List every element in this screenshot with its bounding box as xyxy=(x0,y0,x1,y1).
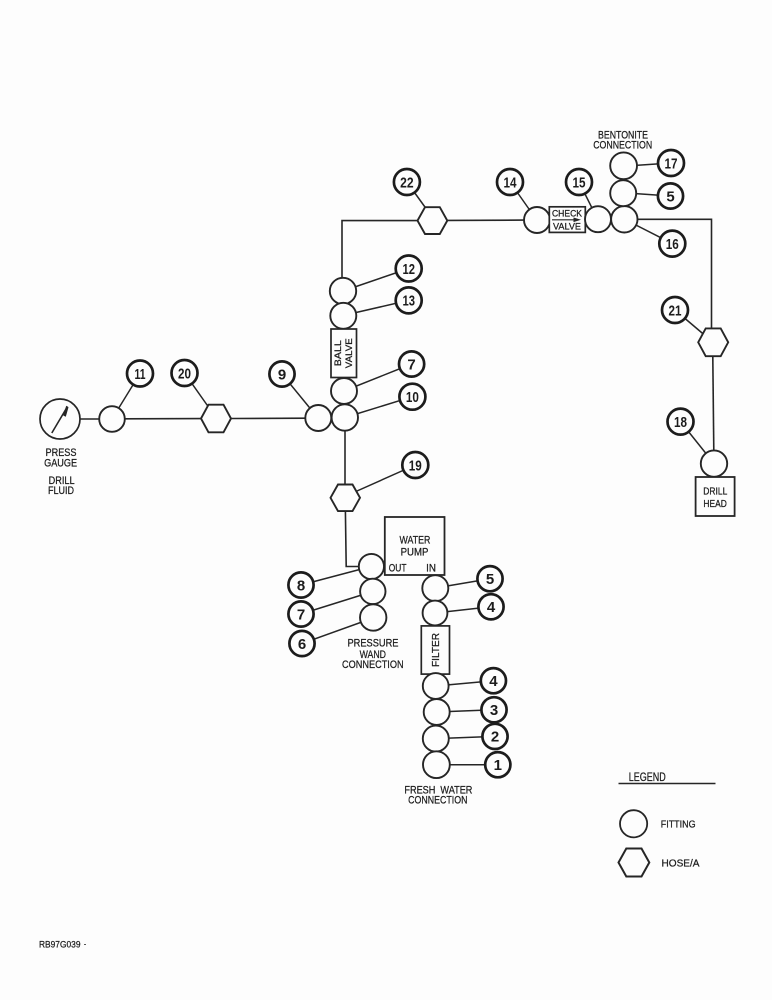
svg-text:2: 2 xyxy=(491,729,499,746)
callout 5 pump in xyxy=(477,566,502,591)
callout 19 xyxy=(402,452,428,478)
filter box xyxy=(421,626,449,674)
callout 9 xyxy=(269,361,294,386)
svg-text:10: 10 xyxy=(406,389,419,406)
leader 7 upper xyxy=(344,364,412,391)
leader 22 xyxy=(407,182,430,214)
svg-text:VALVE: VALVE xyxy=(344,338,355,368)
svg-text:CONNECTION: CONNECTION xyxy=(593,140,652,152)
svg-text:PRESSURE: PRESSURE xyxy=(348,638,399,650)
svg-text:20: 20 xyxy=(178,365,191,382)
gauge needle xyxy=(52,407,68,434)
svg-text:22: 22 xyxy=(400,174,414,191)
leader 11 xyxy=(112,374,140,420)
svg-text:3: 3 xyxy=(490,702,498,719)
fitting 1 xyxy=(423,751,450,778)
wire hose 19 to water pump OUT xyxy=(345,511,370,567)
leader 8 xyxy=(301,567,371,586)
fitting 18 xyxy=(701,450,727,476)
fitting 12 xyxy=(330,278,356,304)
leader 10 xyxy=(345,397,412,418)
leader 4 pump in xyxy=(435,607,491,613)
svg-text:13: 13 xyxy=(402,293,415,310)
fitting 16 junction xyxy=(611,206,637,232)
ball valve box xyxy=(331,329,357,378)
leader 5 pump in xyxy=(435,579,490,588)
svg-text:7: 7 xyxy=(407,356,415,373)
leader 5 bentonite xyxy=(626,193,671,196)
svg-text:OUT: OUT xyxy=(389,562,407,574)
fitting 6 pump out xyxy=(360,604,386,630)
leader 12 xyxy=(343,269,409,292)
svg-text:17: 17 xyxy=(665,155,678,172)
label water pump xyxy=(400,535,431,559)
svg-text:5: 5 xyxy=(666,188,674,205)
svg-text:14: 14 xyxy=(504,174,518,191)
svg-text:19: 19 xyxy=(409,457,422,474)
fitting 7 pump out xyxy=(360,579,385,604)
svg-text:VALVE: VALVE xyxy=(553,222,581,233)
svg-text:4: 4 xyxy=(487,599,496,616)
leader 4 below filter xyxy=(436,681,494,686)
fitting 14 xyxy=(524,207,550,233)
svg-text:CONNECTION: CONNECTION xyxy=(342,659,404,671)
svg-text:HEAD: HEAD xyxy=(703,499,726,510)
check valve arrow xyxy=(552,219,574,221)
callout 15 xyxy=(566,169,592,195)
tick after figure code xyxy=(84,944,86,946)
legend rule xyxy=(619,783,716,785)
leader 1 xyxy=(436,764,498,766)
leader 16 xyxy=(626,220,672,244)
wire riser above ball valve xyxy=(342,221,418,278)
wire fitting 16 to top-right corner xyxy=(636,219,712,328)
wire hose 20 to fitting 9 xyxy=(231,417,307,419)
legend fitting symbol xyxy=(620,810,647,837)
fitting 4 below filter xyxy=(423,673,449,699)
leader 6 xyxy=(302,618,373,644)
svg-text:HOSE/A: HOSE/A xyxy=(662,858,700,870)
fitting 11 xyxy=(99,406,125,432)
callout 4 below filter xyxy=(481,668,506,693)
svg-text:18: 18 xyxy=(674,414,687,431)
callout 4 pump in xyxy=(478,594,503,619)
label drill fluid xyxy=(48,475,75,497)
drill head box xyxy=(696,477,735,516)
callout 18 xyxy=(668,409,694,435)
wire gauge to fitting 11 xyxy=(80,418,101,420)
svg-text:CHECK: CHECK xyxy=(552,208,583,219)
svg-text:BALL: BALL xyxy=(333,340,344,366)
callout 10 xyxy=(399,384,425,410)
svg-text:RB97G039: RB97G039 xyxy=(39,940,81,951)
callout 12 xyxy=(396,256,422,282)
hose 20 xyxy=(201,405,231,433)
water pump box xyxy=(385,517,445,575)
hose 21 xyxy=(698,328,728,356)
leader 13 xyxy=(343,300,409,315)
leader 14 xyxy=(510,182,536,219)
label check valve xyxy=(552,208,583,232)
svg-text:FLUID: FLUID xyxy=(48,485,74,497)
callout 11 xyxy=(127,361,153,387)
callout 22 xyxy=(394,169,420,195)
label press gauge xyxy=(44,447,77,469)
label bentonite connection xyxy=(593,130,652,152)
callout 16 xyxy=(659,231,685,257)
fitting 3 xyxy=(424,699,450,725)
callout 20 xyxy=(172,360,198,386)
fitting 13 xyxy=(330,303,356,329)
svg-text:CONNECTION: CONNECTION xyxy=(408,794,467,806)
hose 22 xyxy=(418,207,448,234)
leader 18 xyxy=(681,422,713,461)
svg-text:11: 11 xyxy=(135,366,146,383)
svg-text:8: 8 xyxy=(297,577,305,594)
callout 6 xyxy=(289,631,314,656)
fitting 4 pump in xyxy=(423,601,448,626)
check valve box xyxy=(549,207,585,233)
callout 2 xyxy=(482,724,507,749)
svg-text:16: 16 xyxy=(666,236,679,253)
fitting 5 bentonite xyxy=(610,180,636,206)
wire hose 22 to fitting 14 xyxy=(447,219,526,221)
leader 3 xyxy=(437,710,494,712)
svg-text:DRILL: DRILL xyxy=(703,487,727,498)
legend hose symbol xyxy=(619,849,650,877)
fitting 7 upper xyxy=(331,378,357,404)
label fresh water connection xyxy=(404,784,472,806)
leader 2 xyxy=(436,736,495,738)
leader 15 xyxy=(579,182,597,218)
callout 14 xyxy=(497,169,523,195)
hose 19 xyxy=(331,485,361,512)
fitting 15 xyxy=(585,206,611,232)
fitting 17 bentonite xyxy=(610,152,637,179)
callout 8 xyxy=(288,572,313,597)
fitting 10 xyxy=(332,404,358,430)
callout 17 xyxy=(658,150,684,176)
svg-text:PUMP: PUMP xyxy=(401,547,429,559)
svg-text:7: 7 xyxy=(297,606,305,623)
svg-text:12: 12 xyxy=(402,261,415,278)
press gauge xyxy=(40,399,80,439)
svg-text:6: 6 xyxy=(298,636,306,653)
callout 3 xyxy=(481,697,506,722)
svg-text:9: 9 xyxy=(278,366,286,383)
fitting 2 xyxy=(423,726,449,752)
callout 7 lower xyxy=(288,601,313,626)
fitting 8 pump out xyxy=(359,554,384,579)
label pressure wand connection xyxy=(342,638,404,671)
svg-text:15: 15 xyxy=(573,174,586,191)
leader 20 xyxy=(185,373,213,412)
wire fitting 11 to hose 20 xyxy=(124,418,202,420)
svg-text:FITTING: FITTING xyxy=(661,819,696,831)
callout 21 xyxy=(662,297,688,323)
svg-text:FILTER: FILTER xyxy=(431,633,442,667)
svg-text:1: 1 xyxy=(494,757,502,774)
label ball valve xyxy=(333,338,355,368)
callout 1 xyxy=(485,752,510,777)
callout 5 bentonite xyxy=(658,183,683,208)
wire hose 21 to fitting 18 xyxy=(713,357,714,452)
svg-text:IN: IN xyxy=(426,563,436,575)
label drill head xyxy=(703,487,727,511)
svg-text:4: 4 xyxy=(489,673,498,690)
svg-text:5: 5 xyxy=(486,571,494,588)
leader 9 xyxy=(282,374,318,418)
fitting 9 xyxy=(305,405,331,431)
callout 7 upper xyxy=(399,351,424,376)
fitting 5 pump in xyxy=(422,575,448,601)
leader 17 xyxy=(626,163,671,166)
leader 19 xyxy=(348,465,415,495)
leader 7 lower xyxy=(301,592,373,615)
callout 13 xyxy=(396,287,422,313)
wire fitting 10 down to hose 19 xyxy=(344,430,346,485)
svg-text:GAUGE: GAUGE xyxy=(44,457,77,469)
svg-text:21: 21 xyxy=(669,302,682,319)
svg-text:WATER: WATER xyxy=(400,535,431,547)
svg-text:LEGEND: LEGEND xyxy=(629,772,666,784)
leader 21 xyxy=(675,310,708,338)
